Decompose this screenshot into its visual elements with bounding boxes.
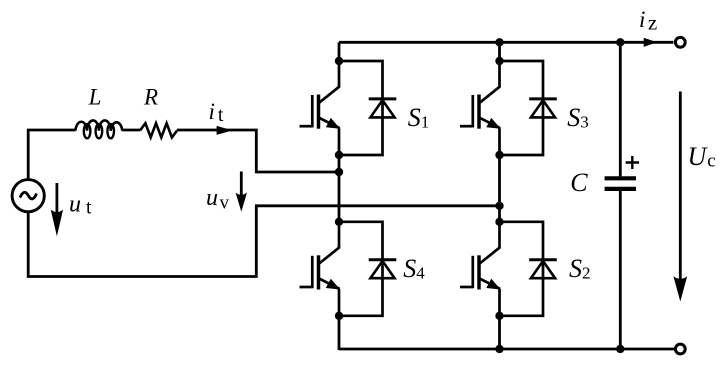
- junction dot: ac input node on left leg: [335, 168, 343, 176]
- wire: u_v return from right bridge midpoint to source bottom: [28, 206, 499, 277]
- inductor L: [75, 120, 122, 130]
- wire: top dc rail: [339, 41, 673, 44]
- svg-text:L: L: [88, 85, 102, 110]
- junction dot: S2 emitter node: [495, 312, 503, 320]
- junction dot: S4 collector node: [335, 218, 343, 226]
- svg-text:C: C: [570, 168, 588, 197]
- resistor R: [140, 123, 177, 137]
- wire: capacitor branch upper: [619, 42, 622, 176]
- wire: right leg bottom segment: [498, 316, 501, 350]
- wire: left leg bottom segment: [338, 316, 341, 350]
- wire: top horizontal from source to inductor: [27, 129, 76, 132]
- voltage arrow u_t: [56, 183, 59, 225]
- ac source u_t (circle with sine): [12, 180, 44, 212]
- transistor S3 (IGBT): [460, 61, 501, 155]
- diode D1 (antiparallel with S1): [339, 61, 396, 155]
- junction dot: S2 collector node: [495, 218, 503, 226]
- transistor S2 (IGBT): [460, 222, 501, 316]
- diode D4 (antiparallel with S4): [339, 222, 396, 316]
- current arrow i_z: [644, 38, 657, 47]
- junction dot: S1 emitter node: [335, 151, 343, 159]
- voltage arrow u_v: [240, 172, 243, 203]
- voltage arrow U_c: [679, 92, 682, 291]
- transistor S1 (IGBT): [300, 61, 341, 155]
- svg-text:R: R: [143, 85, 158, 110]
- terminal bottom right: [675, 344, 685, 354]
- wire: source top lead up to top-left corner: [27, 130, 30, 179]
- polarity + sign: [626, 156, 640, 169]
- junction dot: capacitor top rail: [616, 38, 624, 46]
- diode D3 (antiparallel with S3): [500, 61, 557, 155]
- wire: resistor to corner, down, and into left bridge midpoint: [177, 130, 339, 172]
- junction dot: S1 collector node: [335, 57, 343, 65]
- svg-text:iz: iz: [639, 7, 657, 34]
- junction dot: u_v node on right leg: [495, 202, 503, 210]
- current arrow i_t: [217, 126, 233, 135]
- wire: between inductor and resistor: [122, 129, 140, 132]
- wire: left leg top segment: [338, 42, 341, 61]
- terminal top right: [675, 37, 685, 47]
- junction dot: S3 collector node: [495, 57, 503, 65]
- capacitor C plates: [605, 176, 636, 180]
- wire: right leg middle segment: [498, 155, 501, 222]
- junction dot: right leg top rail: [495, 38, 503, 46]
- wire: right leg top segment: [498, 42, 501, 61]
- wire: bottom dc rail: [339, 348, 676, 351]
- junction dot: S4 emitter node: [335, 312, 343, 320]
- junction dot: right leg bottom rail: [495, 345, 503, 353]
- transistor S4 (IGBT): [300, 222, 341, 316]
- junction dot: capacitor bottom rail: [616, 345, 624, 353]
- wire: left leg middle segment: [338, 155, 341, 222]
- wire: capacitor branch lower: [619, 191, 622, 349]
- diode D2 (antiparallel with S2): [500, 222, 557, 316]
- junction dot: S3 emitter node: [495, 151, 503, 159]
